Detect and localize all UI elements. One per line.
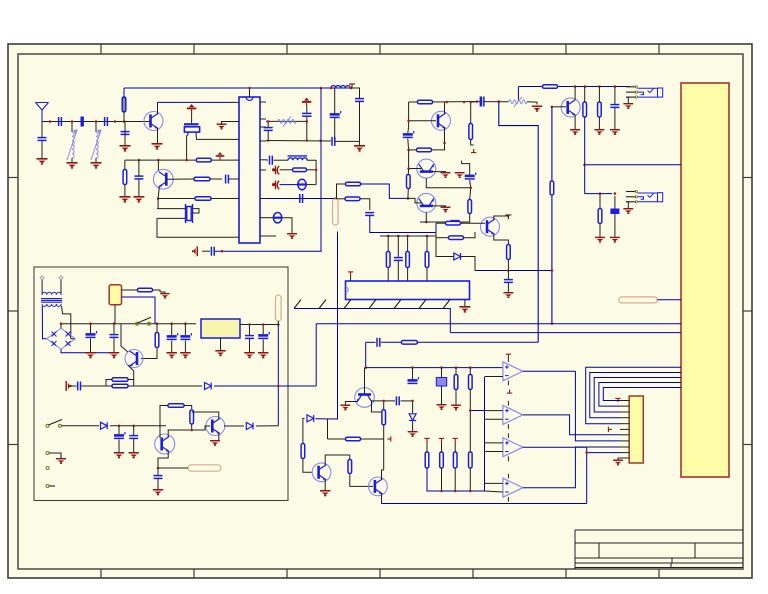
wire c13 r xyxy=(274,159,289,161)
wire L3 gnd xyxy=(95,158,97,162)
ground G-Q5b xyxy=(455,172,465,178)
wire antenna net xyxy=(42,121,150,123)
wire BR1 bot xyxy=(61,349,114,352)
transistor Q13 xyxy=(355,388,375,408)
wire gu2 xyxy=(464,300,466,307)
ground Q1 xyxy=(152,143,163,150)
capacitor C1 xyxy=(38,138,47,141)
junction dot m1 xyxy=(157,467,160,470)
wire F1 down xyxy=(114,305,116,324)
capacitor C23 xyxy=(394,258,403,261)
wire r6 xyxy=(280,169,293,171)
wire r37 xyxy=(469,368,471,375)
wire q13 up xyxy=(364,368,366,394)
wire r12 xyxy=(598,87,600,103)
wire r20 r xyxy=(464,232,476,238)
capacitor C21 xyxy=(451,221,460,224)
wire y342 l xyxy=(366,341,376,343)
resistor R8 xyxy=(345,197,360,201)
ground G-Q3 xyxy=(570,129,580,135)
wire c22 b xyxy=(507,283,509,292)
junction dots d5 net xyxy=(118,425,135,428)
wire c30 l xyxy=(70,385,77,387)
red tap T-CN2b xyxy=(608,427,612,432)
wire oa3 inm xyxy=(485,451,503,453)
ground G-VR1 xyxy=(437,404,447,410)
ground G-Q11 xyxy=(320,490,330,496)
junction dots j2 net xyxy=(599,192,617,195)
ground G-C17 xyxy=(610,129,620,135)
wire c31 b xyxy=(118,440,120,453)
wire u3 out xyxy=(240,324,278,326)
wire r15 r xyxy=(432,136,445,150)
wire q10 base xyxy=(192,426,211,430)
ground G-C22 xyxy=(503,292,513,298)
capacitor C3 xyxy=(105,117,108,126)
wire gq5a xyxy=(432,171,446,173)
capacitor C28 xyxy=(245,336,254,339)
wire c31 xyxy=(118,426,120,434)
wire r19 r xyxy=(461,222,486,224)
switch SW1 xyxy=(136,317,152,325)
wire col 388 top xyxy=(388,236,420,252)
wire r32 b xyxy=(350,474,373,487)
wire oa1 drop xyxy=(575,371,620,441)
resistor R33v xyxy=(382,410,386,425)
ground G-P3 xyxy=(56,458,66,464)
junction dot l5r xyxy=(315,169,318,172)
wire ic pin236 xyxy=(266,235,276,237)
wire j1 gnd xyxy=(626,97,628,103)
wire Q1 to IC xyxy=(158,101,234,103)
capacitor C31 pol xyxy=(114,432,125,438)
IC U1 right pins xyxy=(260,102,266,236)
resistor R12v xyxy=(598,102,602,117)
ground G-C25 xyxy=(109,352,119,358)
junction dot r18 xyxy=(469,187,472,190)
capacitor C7 xyxy=(211,247,214,256)
tuning coil L2 xyxy=(67,130,77,160)
wire r30 b xyxy=(191,424,193,430)
wire q10 emit xyxy=(218,433,220,440)
red tap T3 xyxy=(505,215,511,219)
wire X2 right xyxy=(193,209,199,213)
wire col bots4 xyxy=(426,268,428,282)
diode D8 xyxy=(409,414,416,421)
capacitor C35 series xyxy=(377,338,380,347)
wire q5 down xyxy=(426,178,470,188)
junction dot d8 xyxy=(411,400,414,403)
wire X2 loop xyxy=(157,218,233,237)
wire c20 b xyxy=(470,180,471,188)
resistor R38v xyxy=(425,452,429,468)
capacitor C19 pol xyxy=(403,131,414,137)
junction dots cols xyxy=(387,235,428,238)
wire C10 top xyxy=(351,88,360,98)
ground G-IC1 xyxy=(192,246,198,256)
ground C1 xyxy=(37,158,48,165)
wire d2 r xyxy=(282,218,292,233)
capacitor C13 series xyxy=(270,156,273,165)
ground G-Q6 xyxy=(441,207,451,213)
wire rT8 xyxy=(454,442,456,452)
resistor R9 rail2 xyxy=(543,85,558,89)
ground G-R36 xyxy=(451,405,461,411)
capacitor C27 pol xyxy=(180,333,191,339)
regulator U3 xyxy=(201,319,240,338)
junction dot bottomwire xyxy=(585,451,588,454)
wire q11 emit xyxy=(324,480,326,491)
resistor R41v xyxy=(469,452,473,468)
diode D6 xyxy=(246,423,253,430)
wire y101 row3 xyxy=(527,102,537,105)
wire y101 row xyxy=(471,101,480,103)
resistor R13v xyxy=(598,209,602,224)
capacitor C5 xyxy=(134,176,143,179)
wire c20 top xyxy=(462,161,470,175)
wire rT7 xyxy=(441,442,443,452)
junction dots psu rail xyxy=(60,322,187,325)
wire d8 top xyxy=(412,401,414,413)
wire u2 top stub xyxy=(350,276,352,282)
wire r16 xyxy=(407,169,409,175)
transistor Q8 xyxy=(125,350,143,368)
wire IC pin gnd xyxy=(222,122,234,124)
ground G-Q13 xyxy=(340,405,350,411)
wire X2 stub xyxy=(156,218,158,237)
wire c18 b xyxy=(614,214,616,237)
wire c27 xyxy=(184,324,186,335)
motor pill M1 xyxy=(188,465,221,471)
wire r33 b xyxy=(383,425,385,470)
ground G-D2 xyxy=(287,233,297,239)
wire C10 down xyxy=(359,102,361,141)
wire q7 emit xyxy=(494,234,509,245)
ground G-C29 xyxy=(258,352,268,358)
diode net y386 xyxy=(134,385,202,387)
capacitor C10 xyxy=(355,99,364,102)
ground G-C31 xyxy=(114,452,124,458)
junction dots row160 xyxy=(138,159,188,162)
resistor R31v xyxy=(301,444,305,459)
resistor R14 xyxy=(418,100,433,104)
transistor Q12 xyxy=(369,477,388,496)
ground G-C18 xyxy=(610,237,620,243)
resistor R22v xyxy=(386,252,390,268)
wire r13 b xyxy=(599,224,601,237)
capacitor C8 xyxy=(302,113,312,116)
ground G-Q10 xyxy=(210,440,220,446)
wire f3 to cn1 xyxy=(657,299,681,301)
transistor Q1 xyxy=(144,112,163,131)
IC U2 notch xyxy=(346,287,349,293)
junction dot r37jog xyxy=(469,409,472,412)
wire IC top pin xyxy=(249,88,251,97)
wire c33 b xyxy=(157,479,159,489)
wire c17 xyxy=(614,87,616,105)
resistor R35 xyxy=(401,341,417,345)
red pol cap E2 xyxy=(273,166,280,175)
wire r14 r xyxy=(433,101,478,104)
power arrow P1 xyxy=(187,104,196,113)
junction dots oafeed xyxy=(411,366,471,369)
wire C1 lead xyxy=(41,122,43,138)
wire col top4 xyxy=(426,236,428,252)
wire T1 sec right xyxy=(62,306,76,339)
wire r13 xyxy=(599,194,601,209)
wire oa2 out xyxy=(523,415,620,435)
wire r25 r xyxy=(153,290,161,292)
wire q4 emit xyxy=(444,128,446,137)
wire C5 leads xyxy=(138,160,140,175)
wire x316 vert xyxy=(315,324,317,386)
junction dots rbot xyxy=(440,490,471,493)
wire y101 row2 xyxy=(485,101,509,103)
wire col bots2 xyxy=(397,261,399,281)
wire oa3 inp xyxy=(485,442,503,444)
wire Q2 emitter xyxy=(158,187,159,199)
trimmer VR1 xyxy=(436,368,446,386)
wire q6 base xyxy=(408,198,421,203)
wire c24 b xyxy=(90,339,92,353)
ground L2 xyxy=(67,162,78,169)
junction dots f top xyxy=(446,100,479,103)
wire r20 l xyxy=(436,237,449,239)
wire q5 base xyxy=(409,168,422,170)
wire r12 b xyxy=(598,117,600,129)
wire Q2 collector xyxy=(157,160,159,170)
wire rbot bus xyxy=(427,468,485,491)
wire col bots xyxy=(387,268,389,282)
diode D5 xyxy=(101,422,108,429)
wire vr1 b xyxy=(441,386,443,404)
resistor R6 xyxy=(293,168,307,172)
capacitor C29 pol xyxy=(258,332,269,338)
transistor Q7 xyxy=(481,217,500,236)
resistor R19 xyxy=(446,221,461,225)
wire r14 l xyxy=(409,101,418,103)
wire u3 gnd xyxy=(220,338,222,350)
wire c27 b xyxy=(184,341,186,353)
wire q8 emit xyxy=(128,365,134,380)
resistor R30v xyxy=(190,410,194,424)
fuse F3 pill xyxy=(619,297,658,303)
wire f4 bot xyxy=(277,321,279,325)
IC U1 xyxy=(239,97,260,243)
capacitor C14 series xyxy=(300,194,303,203)
wire col top2 xyxy=(397,236,399,257)
power supply box xyxy=(34,267,288,501)
wire c34 l xyxy=(372,400,396,402)
ground G-C24 xyxy=(85,352,95,358)
varistor RV1 xyxy=(278,116,297,126)
capacitor C6 series xyxy=(226,175,229,184)
wire L2 top xyxy=(71,122,73,133)
red tap T-CN2a xyxy=(615,398,620,402)
capacitor C17 xyxy=(610,105,619,108)
wire c36 xyxy=(412,368,414,379)
tuning coil L3 xyxy=(91,130,101,160)
ferrite bead L1 xyxy=(81,117,84,127)
wire d6 r xyxy=(256,425,278,427)
wire q9 coll xyxy=(168,430,192,437)
wire r41 top xyxy=(469,434,471,452)
transformer T1 xyxy=(40,276,63,307)
wire oa1 out xyxy=(523,370,576,372)
wire r34 r xyxy=(361,438,384,440)
transistor Q11 xyxy=(312,463,331,482)
wire r8 l xyxy=(337,198,345,200)
wire oa1 inm xyxy=(485,376,503,378)
wire c34 r xyxy=(401,400,413,402)
ground G-Q5a xyxy=(441,172,451,178)
junction dot r33 xyxy=(382,400,385,403)
wire d1 r xyxy=(307,184,317,186)
wire col top3 xyxy=(407,236,409,252)
ground G-R13 xyxy=(595,237,605,243)
F column xyxy=(408,102,410,127)
wire C7 left xyxy=(202,250,210,252)
capacitor C16 pol series xyxy=(481,97,484,107)
ground L3 xyxy=(91,162,102,169)
wire r37 jog xyxy=(470,410,485,412)
wire Q1 emitter xyxy=(157,128,159,143)
wire q3 coll xyxy=(574,87,576,101)
oa input vertical xyxy=(484,377,486,491)
wire q4 base xyxy=(409,120,436,122)
wire c29 xyxy=(262,325,264,335)
wire F1 right2 xyxy=(122,297,156,324)
crystal filter Z1 xyxy=(184,124,200,134)
vertical x278 xyxy=(277,325,279,426)
wire R1 to rail xyxy=(123,88,125,97)
wire c26 xyxy=(171,324,173,335)
capacitor C2 xyxy=(59,117,62,126)
wire r26 b xyxy=(141,348,157,359)
wire gq6 xyxy=(432,205,446,208)
wire Q1 collector xyxy=(157,102,159,114)
wire q4 coll xyxy=(444,102,446,114)
wire r17 b xyxy=(471,140,474,146)
ground G-side xyxy=(66,381,72,391)
resistor R21v x508 xyxy=(507,245,511,260)
wire X2 bot xyxy=(157,217,185,219)
resistor R7 xyxy=(346,182,361,186)
wire c15 down xyxy=(370,216,436,233)
wire r29 r xyxy=(184,406,192,410)
capacitor C20 pol xyxy=(465,173,476,179)
junction dot ic top xyxy=(248,87,251,90)
wire r36 xyxy=(455,368,457,375)
wire d2 l xyxy=(266,217,273,219)
resistor R11v xyxy=(583,102,587,117)
resistor R32v xyxy=(348,460,352,474)
wire y270 net xyxy=(475,270,552,272)
wire cn2 gnd xyxy=(618,458,620,460)
ground G-C27 xyxy=(180,352,190,358)
wire d4 right xyxy=(214,385,316,387)
diode D1 disc xyxy=(298,179,307,189)
wire P1 stem xyxy=(191,113,193,124)
capacitor C32 xyxy=(129,436,138,439)
fuse F2 pill xyxy=(333,199,339,225)
wire r19 l xyxy=(436,222,446,224)
resistor R26v xyxy=(155,333,159,348)
junction dots y270 xyxy=(507,269,553,272)
junction dot jackdrop xyxy=(583,164,586,167)
wire row121 xyxy=(266,120,307,122)
wire q7 b xyxy=(436,232,440,257)
wire q3 base xyxy=(552,106,566,108)
ground G-CN2 xyxy=(613,460,623,466)
red power U4A dn xyxy=(507,390,512,394)
wire oa4 inp xyxy=(485,482,503,484)
vertical net x551 xyxy=(551,107,553,324)
wire row141 left xyxy=(266,140,331,143)
wire r27 r xyxy=(128,379,134,381)
wire rail2 drop xyxy=(517,87,519,102)
CN2 pins xyxy=(620,401,629,459)
wire L3 top xyxy=(95,122,97,133)
wire g c10 xyxy=(359,141,361,145)
vertical x337 xyxy=(316,232,338,420)
wire r28 r xyxy=(128,385,134,387)
wire r29 loop xyxy=(160,406,168,426)
wire row141 right xyxy=(335,140,359,142)
connector CN2 xyxy=(629,396,643,463)
wire d7 l xyxy=(303,418,305,443)
red pol cap E3 xyxy=(273,181,280,190)
wire C5 gnd xyxy=(138,180,140,197)
wire c17 b xyxy=(614,108,616,129)
connector pins P3 xyxy=(46,452,61,488)
resistor R24v xyxy=(425,252,429,268)
resistor R5 xyxy=(195,197,211,201)
wire R5 right xyxy=(211,198,233,200)
wire rbot 4 xyxy=(469,468,471,491)
resistor R15 xyxy=(417,148,432,152)
wire rbot 2 xyxy=(441,468,443,491)
junction dot q10 xyxy=(190,429,193,432)
wire C4 xyxy=(124,122,126,146)
wire r6 r xyxy=(307,169,317,171)
wire sw2 d5 xyxy=(62,425,100,427)
wire col bots3 xyxy=(407,268,409,282)
wire q12 coll xyxy=(382,470,384,480)
wire bottom long xyxy=(382,503,587,505)
wire q10 right xyxy=(224,425,244,427)
wire c13 l xyxy=(266,159,268,161)
junction dot x551 bus xyxy=(551,322,554,325)
junction dot q4b xyxy=(407,120,410,123)
wire c25 xyxy=(113,324,115,334)
bus VCC2 xyxy=(450,332,681,334)
ground G-C10 xyxy=(354,145,365,152)
wire r15 l xyxy=(409,149,417,151)
vertical x584 xyxy=(584,117,586,194)
junction dots rail xyxy=(320,87,353,90)
capacitor C26 pol xyxy=(167,333,178,339)
wire C9 link xyxy=(267,121,269,127)
wire r25 l xyxy=(130,289,138,291)
op-amp U4B xyxy=(503,401,523,429)
wire c22 xyxy=(507,271,509,280)
resistor R10v x551 xyxy=(550,181,554,195)
wire x365 drop xyxy=(365,342,367,367)
red hook T2 xyxy=(471,149,476,153)
resistor R23v xyxy=(406,252,410,268)
resistor R20 xyxy=(449,236,464,240)
